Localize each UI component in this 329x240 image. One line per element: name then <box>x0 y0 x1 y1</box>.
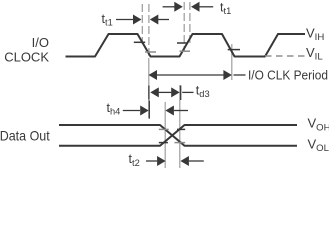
svg-text:I/O: I/O <box>32 35 49 50</box>
dashed ref line pair B (rising edge 2) <box>184 2 190 52</box>
VIL tick on falling edge 1 <box>145 51 156 53</box>
dashed ref line pair A (falling edge 1) <box>142 4 149 58</box>
VOH ref dash at crossover (gray, left upper) <box>159 128 169 130</box>
VIH tick on falling edge 1 <box>134 41 145 43</box>
t_h4 dimension: label, leader, arrows <box>107 101 189 117</box>
svg-text:Data Out: Data Out <box>0 129 50 144</box>
t_t1 marker 1 (falling edge): label, leader, arrows <box>102 12 170 28</box>
VIL dashed level line <box>265 55 306 57</box>
I/O CLOCK waveform <box>66 34 306 57</box>
VOL ref dash at crossover (gray, right lower) <box>175 142 186 144</box>
ref line at clock falling edge 1 (x=148.8) <box>148 58 150 118</box>
svg-text:I/O CLK Period: I/O CLK Period <box>248 68 328 83</box>
svg-text:CLOCK: CLOCK <box>4 50 49 65</box>
ref line at data transition start (x=165.2) <box>164 102 166 168</box>
ref line at data transition end (x=179.8) <box>179 85 181 168</box>
t_t2 dimension: label, leader, arrows <box>129 152 204 168</box>
VIL tick on rising edge 2 <box>180 50 191 52</box>
I/O CLK Period dimension arrows <box>149 68 329 83</box>
VIL tick on falling edge 2 <box>228 49 240 51</box>
VIH tick on rising edge 2 <box>177 42 188 44</box>
VOL tick at crossover (dark, left lower) <box>159 142 168 144</box>
ref line at clock falling edge 2 (x=231.8) <box>231 44 233 80</box>
label I/O CLOCK <box>4 35 49 65</box>
t_d3 dimension: bars, arrows, label <box>149 83 210 118</box>
VOH tick at crossover (dark, right upper) <box>177 128 185 130</box>
t_t1 marker 2 (rising edge): leader, arrows, label <box>163 1 232 17</box>
Data Out waveform: rails and crossover <box>59 125 297 146</box>
